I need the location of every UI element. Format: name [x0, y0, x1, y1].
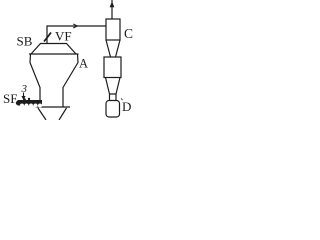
open arrowhead on pipe — [73, 24, 77, 28]
second vessel cone — [106, 78, 121, 95]
svg-text:A: A — [79, 57, 88, 71]
vessel A bottom cone — [38, 108, 67, 120]
svg-text:SF: SF — [3, 91, 17, 106]
second vessel body — [104, 57, 121, 78]
VF tick (slash on pipe) — [44, 33, 51, 42]
vessel A lid (trapezoid) — [29, 44, 79, 55]
vessel A body right side — [63, 54, 78, 107]
collector jar D — [106, 101, 120, 118]
svg-text:VF: VF — [55, 29, 72, 44]
exit pipe arrowhead — [110, 2, 115, 8]
svg-text:D: D — [122, 99, 131, 114]
cyclone C body — [106, 19, 120, 40]
arrow 3 line — [23, 93, 25, 98]
neck above D — [109, 94, 117, 101]
svg-text:SB: SB — [17, 34, 33, 49]
svg-text:C: C — [124, 26, 133, 41]
vessel A body left side — [30, 54, 40, 107]
svg-text:3: 3 — [21, 83, 28, 95]
pipe from lid to cyclone — [47, 26, 106, 44]
cyclone cone — [106, 40, 120, 57]
SF screw feeder bar — [16, 98, 42, 108]
cyclone exit pipe — [111, 0, 113, 19]
vessel A flange — [35, 106, 70, 108]
arrow 3 head — [21, 96, 25, 100]
tick before D — [121, 99, 123, 101]
